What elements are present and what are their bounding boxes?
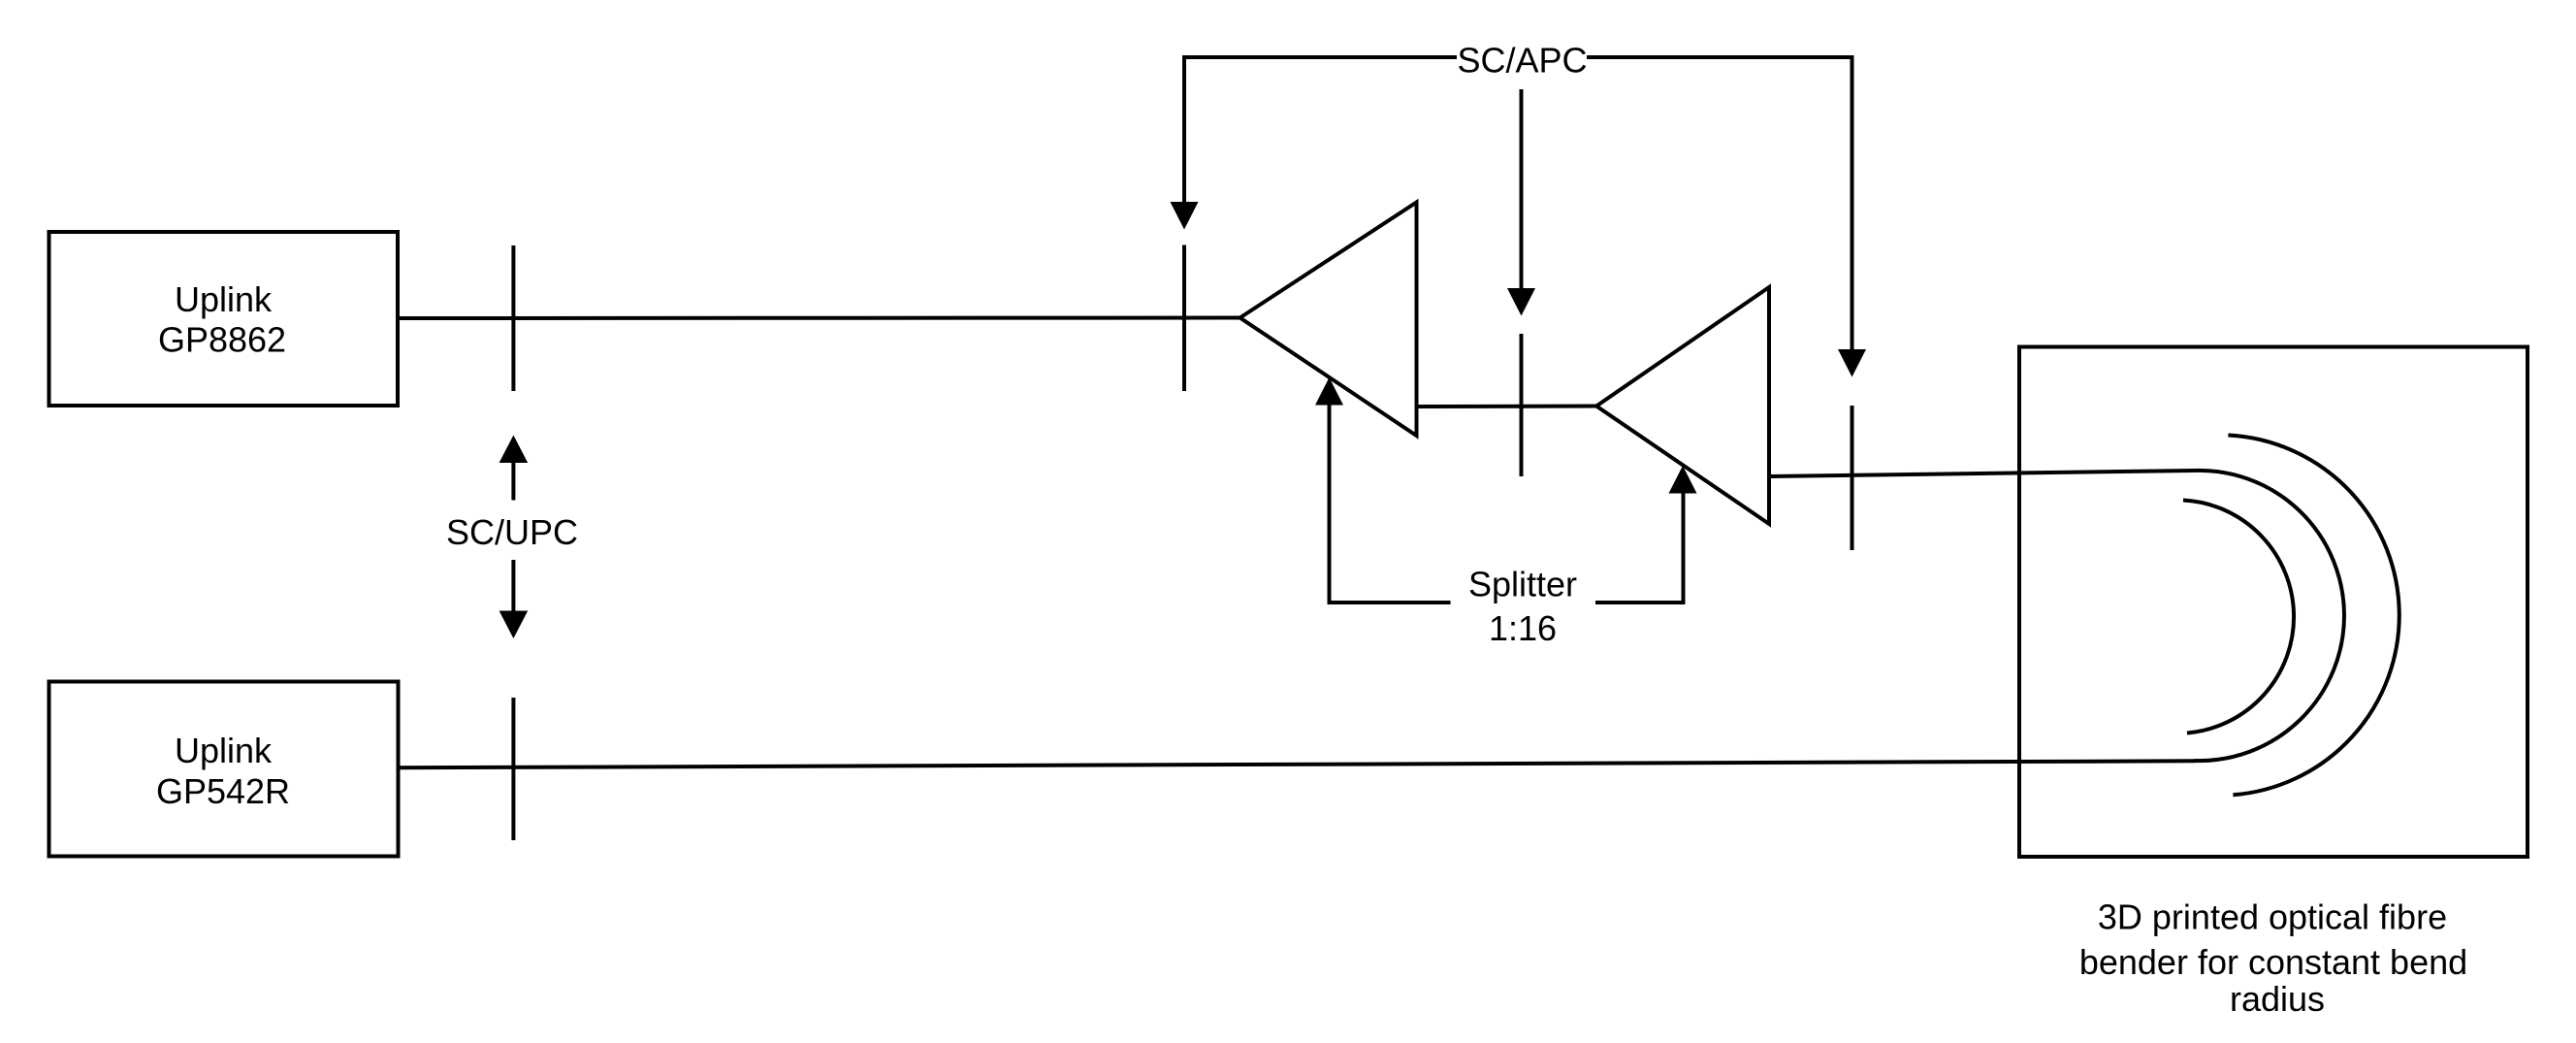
splitter label pointer right (arrow to triangle 2) bbox=[1595, 601, 1684, 604]
wire: GP542R to fibre bender bbox=[399, 761, 2197, 767]
svg-text:1:16: 1:16 bbox=[1489, 608, 1557, 648]
SC/APC left drop with arrow bbox=[1182, 55, 1186, 202]
fibre bend inner arc bbox=[2183, 501, 2294, 733]
uplink box GP8862 bbox=[49, 232, 399, 406]
SC/APC middle drop with arrow bbox=[1520, 89, 1524, 288]
svg-text:SC/APC: SC/APC bbox=[1457, 41, 1587, 81]
svg-text:Splitter: Splitter bbox=[1468, 564, 1577, 603]
wire: splitter 1 to splitter 2 bbox=[1417, 405, 1597, 409]
SC/APC right drop with arrow bbox=[1851, 55, 1854, 349]
svg-text:bender for constant bend: bender for constant bend bbox=[2079, 942, 2467, 982]
svg-text:Uplink: Uplink bbox=[175, 279, 273, 319]
svg-text:GP8862: GP8862 bbox=[158, 320, 286, 360]
fibre bend outer arc bbox=[2228, 436, 2399, 796]
fibre bender box bbox=[2019, 347, 2528, 858]
arrow up (SC/UPC pointer) bbox=[499, 436, 529, 464]
connector tick at splitter 1 input bbox=[1182, 245, 1186, 392]
svg-text:SC/UPC: SC/UPC bbox=[446, 512, 578, 552]
SC/APC bracket top line (right segment) bbox=[1587, 55, 1854, 59]
splitter triangle 1 bbox=[1240, 203, 1417, 437]
uplink box GP542R bbox=[49, 682, 399, 857]
svg-text:radius: radius bbox=[2230, 979, 2325, 1019]
fibre bend middle arc (fibre path) bbox=[2193, 471, 2344, 761]
connector tick on upper fibre bbox=[511, 245, 515, 391]
svg-text:3D printed optical fibre: 3D printed optical fibre bbox=[2098, 897, 2447, 937]
SC/APC bracket top line (left segment) bbox=[1182, 55, 1457, 59]
connector tick on lower fibre bbox=[511, 698, 515, 840]
wire: splitter 2 to fibre bender bbox=[1769, 471, 2193, 476]
splitter label pointer left (arrow to triangle 1) bbox=[1315, 377, 1343, 406]
svg-text:Uplink: Uplink bbox=[175, 731, 273, 770]
wire: GP8862 to splitter 1 input bbox=[398, 316, 1240, 321]
svg-text:GP542R: GP542R bbox=[156, 771, 290, 811]
connector tick at splitter 2 output bbox=[1851, 406, 1854, 550]
arrow down (SC/UPC pointer) bbox=[511, 560, 515, 611]
connector tick between splitters bbox=[1520, 334, 1524, 476]
splitter triangle 2 bbox=[1596, 287, 1769, 524]
